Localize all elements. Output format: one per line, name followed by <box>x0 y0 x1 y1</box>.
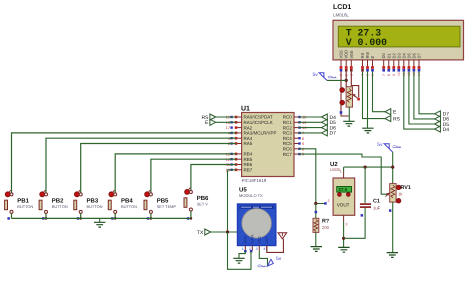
push button PB1 <box>5 190 34 213</box>
ground (LCD contrast) <box>343 121 354 126</box>
LCD pin 3 VEE <box>349 50 354 76</box>
U1 pin 12 RB5 <box>226 157 253 162</box>
wire RC1 to D5 terminal <box>299 121 322 123</box>
svg-text:RB6: RB6 <box>244 162 253 167</box>
U1 pin 8 RC6 <box>283 146 304 151</box>
LCD LCD1 LM016L body <box>333 4 464 60</box>
LCD pin 7 D0 <box>381 53 386 76</box>
svg-text:LCD1: LCD1 <box>333 4 351 11</box>
U5 GND pin marker <box>244 250 247 253</box>
wire VOUT node to R? <box>315 204 317 219</box>
svg-text:RV1: RV1 <box>401 185 411 191</box>
junction C1 bottom <box>342 237 345 240</box>
terminal RS (LCD side) <box>385 116 391 122</box>
wire RC2 to D6 terminal <box>299 127 322 129</box>
terminal D5 (U1 side) <box>322 119 328 125</box>
wire VSS to ground <box>341 72 349 116</box>
wire RW to ground <box>367 72 369 129</box>
svg-text:DATA: DATA <box>251 234 255 244</box>
push button PB4 <box>108 190 137 213</box>
U1 pin 3 RA4 <box>228 136 253 141</box>
U2 pin 3 (GND) <box>344 215 348 226</box>
svg-text:5v: 5v <box>313 72 319 78</box>
terminal D7 (right) <box>435 111 441 117</box>
power terminal 5v (right) <box>377 142 401 152</box>
potentiometer RV1 1k <box>390 184 411 203</box>
svg-text:RA1/ICSPCLK: RA1/ICSPCLK <box>244 120 273 125</box>
svg-text:VEE: VEE <box>349 50 354 58</box>
VSS wire end marker <box>340 111 343 114</box>
wire 5v rail <box>344 166 393 168</box>
LCD pin 8 D1 <box>386 53 391 76</box>
LCD screen showing T 27.3 / V 0.000 <box>338 26 460 48</box>
U1 pin 11 RB6 <box>226 162 253 167</box>
svg-text:5: 5 <box>302 141 304 146</box>
U1 pin 2 RA5 <box>228 141 253 146</box>
wire PB3 to U1 <box>81 144 237 194</box>
svg-text:5v: 5v <box>276 256 282 262</box>
svg-text:RC7: RC7 <box>283 152 292 157</box>
svg-text:RC3: RC3 <box>283 131 292 136</box>
U5 DATA pin marker <box>250 250 253 253</box>
wire D6 pin to D6 terminal <box>414 72 435 119</box>
svg-text:RB4: RB4 <box>244 152 253 157</box>
terminal D6 (right) <box>435 116 441 122</box>
wire C1 top <box>364 167 366 203</box>
svg-text:RA4: RA4 <box>244 136 253 141</box>
wire RV1 bottom to ground <box>392 202 394 253</box>
push button PB3 <box>74 190 103 213</box>
U5 pin 4 ANT <box>263 236 269 251</box>
svg-text:1: 1 <box>242 247 244 251</box>
terminal D7 (U1 side) <box>322 130 328 136</box>
wire PB3 to ground rail <box>80 213 82 218</box>
LCD pin 1 VSS <box>339 50 344 76</box>
svg-text:RC2: RC2 <box>283 125 292 130</box>
wire R? to ground <box>315 232 317 246</box>
svg-text:D4: D4 <box>443 127 450 133</box>
svg-text:3: 3 <box>256 247 258 251</box>
RV1 bottom pin marker <box>389 209 392 212</box>
LCD pin 12 D5 <box>406 53 411 76</box>
wire PB6 to ground rail <box>190 211 192 218</box>
wire RB7 down to TX node <box>227 170 229 232</box>
wire RC0 to D4 terminal <box>299 116 322 118</box>
wire PB4 to U1 <box>115 154 236 193</box>
U1 pin 18 RA1/ICSPCLK <box>226 120 273 125</box>
LCD pin 6 E <box>370 56 375 77</box>
junction 5v rail right <box>391 166 394 169</box>
wire VDD down to contrast pot top <box>345 72 347 87</box>
wire D5 pin to D5 terminal <box>409 72 435 124</box>
wire RC3 to D7 terminal <box>299 132 322 134</box>
wire 5v to VDD <box>327 79 346 81</box>
junction 5v / VDD <box>345 79 348 82</box>
wire U5 GND to ground <box>239 251 245 258</box>
svg-text:PIC16F1619: PIC16F1619 <box>242 178 267 183</box>
svg-text:2: 2 <box>328 199 330 203</box>
push button PB2 <box>39 190 68 213</box>
wire TX node to U5 DATA <box>228 232 252 269</box>
wire PB1 to ground rail <box>11 213 13 218</box>
capacitor C1 1uF <box>360 199 381 211</box>
terminal RS (U1 side) <box>210 114 216 120</box>
U1 pin 13 RB4 <box>226 152 253 157</box>
junction VOUT node <box>314 202 317 205</box>
svg-text:LM016L: LM016L <box>333 13 349 18</box>
microcontroller U1 PIC16F1619 body <box>241 106 294 184</box>
wire U5 VCC to 5v <box>259 251 267 266</box>
svg-text:RA0/ICSPDAT: RA0/ICSPDAT <box>244 115 273 120</box>
junction TX node <box>226 230 229 233</box>
svg-text:RC1: RC1 <box>283 120 292 125</box>
U1 pin 19 RA0/ICSPDAT <box>226 115 273 120</box>
svg-text:RA2: RA2 <box>244 125 253 130</box>
svg-text:RS: RS <box>393 116 401 122</box>
svg-text:VCC: VCC <box>258 236 262 244</box>
wire D7 pin to D7 terminal <box>419 72 435 114</box>
wire RC6 to U2 VOUT <box>299 149 326 204</box>
svg-text:200: 200 <box>322 225 330 230</box>
U1 pin 5 RC5 <box>283 141 304 146</box>
terminal E (U1 side) <box>210 119 216 125</box>
U1 pin 17 RA2 <box>226 125 253 130</box>
ground (R?) <box>311 247 322 252</box>
svg-text:RA5: RA5 <box>244 141 253 146</box>
U5 pin 2 DATA <box>249 234 255 251</box>
RV1 wiper arrow <box>386 193 390 197</box>
wire U2 VDD up to 5v rail <box>343 167 345 172</box>
svg-text:5v: 5v <box>377 142 383 148</box>
ground rail under buttons <box>12 217 191 219</box>
svg-text:GND: GND <box>244 235 248 243</box>
U1 pin 15 RC1 <box>283 120 307 125</box>
R? top pin marker <box>315 211 318 214</box>
svg-text:RC4: RC4 <box>283 136 292 141</box>
U5 pin 1 GND <box>242 235 248 251</box>
wire VEE to pot wiper <box>351 72 358 98</box>
U1 pin 16 RC0 <box>283 115 307 120</box>
wire 5v down to RV1 <box>392 152 394 184</box>
resistor R? 200 <box>313 218 330 232</box>
svg-text:D7: D7 <box>417 53 422 59</box>
wire E terminal to RA1 <box>216 121 237 123</box>
U1 pin 10 RB7 <box>226 167 253 172</box>
svg-text:D7: D7 <box>330 131 337 137</box>
svg-text:SET TEMP: SET TEMP <box>157 204 177 209</box>
U1 pin 4 RA3/MCLR/VPP <box>228 131 277 136</box>
wire PB5 to U1 <box>151 159 236 193</box>
svg-text:9: 9 <box>392 74 396 76</box>
U1 pin 7 RC3 <box>283 131 304 136</box>
svg-text:BUTTON: BUTTON <box>52 204 68 209</box>
LCD pin 9 D2 <box>391 53 396 76</box>
wire PB2 to U1 <box>46 138 236 193</box>
wire PB2 to ground rail <box>45 213 47 218</box>
wire RB7 stub <box>228 169 237 171</box>
wire RS pin to RS terminal <box>363 72 386 119</box>
svg-text:RC6: RC6 <box>283 147 292 152</box>
svg-text:6: 6 <box>302 136 304 141</box>
terminal D5 (right) <box>435 121 441 127</box>
wire PB4 to ground rail <box>114 213 116 218</box>
svg-text:U1: U1 <box>241 106 250 113</box>
module U5 MODULO TX body <box>238 187 276 246</box>
svg-text:4: 4 <box>263 247 265 251</box>
svg-text:ANT: ANT <box>265 236 269 244</box>
svg-text:BUTTON: BUTTON <box>87 204 103 209</box>
push button PB5 <box>144 190 176 213</box>
LCD pin 4 RS <box>360 53 365 76</box>
terminal D6 (U1 side) <box>322 125 328 131</box>
ground (RV1) <box>387 253 398 258</box>
U1 pin 9 RC7 <box>283 152 304 157</box>
wire U2 GND down to ground <box>343 222 345 248</box>
svg-text:RA3/MCLR/VPP: RA3/MCLR/VPP <box>244 131 277 136</box>
wire RC7 to RV1 wiper <box>299 154 388 194</box>
svg-text:E: E <box>370 56 375 59</box>
svg-text:TX: TX <box>197 230 204 236</box>
svg-text:MODULO TX: MODULO TX <box>239 193 263 198</box>
wire pot bottom to ground <box>348 107 350 121</box>
LCD pin 2 VDD <box>344 50 349 76</box>
U5 antenna disc <box>242 209 272 239</box>
C1 bottom pin marker <box>361 214 364 217</box>
svg-text:RC0: RC0 <box>283 115 292 120</box>
junction 5v rail C1 <box>364 166 367 169</box>
svg-text:1: 1 <box>340 170 342 174</box>
LCD pin 14 D7 <box>417 53 422 76</box>
svg-text:8: 8 <box>387 74 391 76</box>
potentiometer (LCD contrast) <box>340 87 360 107</box>
power terminal 5v (U5) <box>258 256 282 267</box>
svg-text:BUTTON: BUTTON <box>17 204 33 209</box>
ground (U2) <box>338 247 349 252</box>
svg-text:17: 17 <box>226 125 230 130</box>
wire PB5 to ground rail <box>150 213 152 218</box>
power terminal 5v (left) <box>313 72 337 80</box>
svg-text:3: 3 <box>345 223 347 227</box>
U5 pin 3 VCC <box>256 236 262 251</box>
svg-text:RC5: RC5 <box>283 141 292 146</box>
svg-text:V 0.000: V 0.000 <box>346 37 387 48</box>
wire C1 bottom to U2 GND net <box>344 208 366 238</box>
terminal TX <box>205 229 211 235</box>
wire TX horizontal <box>211 231 239 233</box>
ground (U5) <box>233 258 244 263</box>
svg-text:VOUT: VOUT <box>337 203 350 208</box>
U1 pin 14 RC2 <box>283 125 307 130</box>
svg-text:1uF: 1uF <box>373 206 381 211</box>
svg-text:10: 10 <box>397 72 401 76</box>
terminal D4 (right) <box>435 126 441 132</box>
ground (button rail) <box>94 222 105 227</box>
antenna AN1 <box>278 233 287 239</box>
wire E pin to E terminal <box>373 72 386 112</box>
temperature sensor U2 LM35 body <box>330 161 355 215</box>
wire PB1 to U1 <box>12 133 237 193</box>
LCD pin 5 RW <box>365 52 370 76</box>
wire D4 pin to D4 terminal <box>404 72 435 130</box>
LCD pin 10 D3 <box>396 53 401 76</box>
wire rail to ground <box>99 218 101 222</box>
svg-text:27.0: 27.0 <box>339 187 348 192</box>
ground (RW) <box>362 128 373 133</box>
push button PB6 <box>184 188 209 211</box>
wire RS terminal to RA0 <box>216 116 237 118</box>
U2 pin 2 marker <box>324 199 329 205</box>
LCD pin 11 D4 <box>401 53 406 76</box>
svg-text:C1: C1 <box>373 199 380 205</box>
terminal D4 (U1 side) <box>322 114 328 120</box>
svg-text:BUTTON: BUTTON <box>121 204 137 209</box>
svg-text:7: 7 <box>382 74 386 76</box>
svg-text:R?: R? <box>322 219 329 225</box>
svg-text:SET V: SET V <box>197 201 209 206</box>
svg-text:RB7: RB7 <box>244 168 253 173</box>
U2 pin 1 (VDD) <box>340 170 344 179</box>
LCD pin 13 D6 <box>411 53 416 76</box>
U1 pin 6 RC4 <box>283 136 304 141</box>
terminal E (LCD side) <box>385 109 391 115</box>
svg-text:RB5: RB5 <box>244 157 253 162</box>
wire U5 ANT to antenna <box>267 239 284 253</box>
wire PB6 to U1 <box>191 165 236 191</box>
